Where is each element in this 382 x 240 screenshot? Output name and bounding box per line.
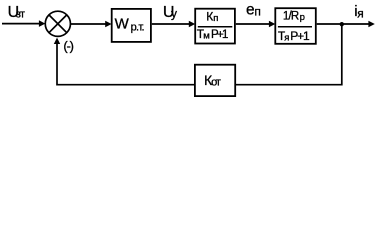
svg-text:W: W: [115, 15, 130, 32]
svg-text:р: р: [300, 12, 305, 23]
svg-text:п: п: [254, 4, 261, 18]
svg-text:от: от: [211, 77, 221, 89]
svg-text:зт: зт: [16, 8, 25, 20]
svg-text:1/R: 1/R: [283, 11, 299, 23]
svg-text:Р+1: Р+1: [211, 29, 228, 41]
svg-text:у: у: [171, 7, 177, 21]
svg-text:Р+1: Р+1: [290, 29, 310, 43]
svg-text:я: я: [357, 7, 364, 21]
svg-text:м: м: [203, 31, 210, 42]
svg-text:п: п: [213, 13, 218, 24]
svg-text:(-): (-): [63, 38, 74, 53]
svg-text:е: е: [246, 2, 255, 19]
svg-text:р.т.: р.т.: [131, 22, 145, 34]
svg-text:я: я: [284, 32, 289, 43]
